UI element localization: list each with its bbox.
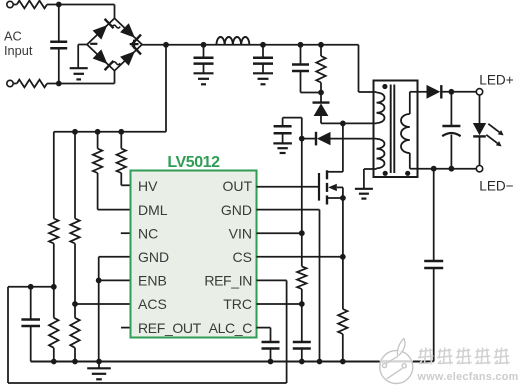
node bottom input junction <box>56 81 62 87</box>
capacitor C1 (X-cap across AC) <box>50 5 67 84</box>
svg-text:DML: DML <box>138 202 168 218</box>
node divider junction C <box>118 129 124 135</box>
pin REF_OUT stub <box>121 327 131 329</box>
svg-text:REF_IN: REF_IN <box>204 273 252 289</box>
resistor R5 (HV series) <box>117 132 131 186</box>
node ground rail junction <box>268 359 274 365</box>
label - (bridge negative) <box>90 43 97 45</box>
watermark logo and text <box>380 339 519 384</box>
ground (aux winding) <box>355 189 373 199</box>
transformer T1 secondary winding <box>401 92 418 169</box>
pin label REF_IN (right) <box>204 273 252 289</box>
resistor R11 (VIN-TRC) <box>297 139 306 342</box>
ground (C5) <box>273 143 292 153</box>
node feedback tap A <box>51 284 57 290</box>
wire <box>418 168 477 170</box>
svg-text:HV: HV <box>138 178 158 194</box>
label + (bridge positive) <box>130 40 139 49</box>
node output cap top <box>449 89 455 95</box>
svg-text:REF_OUT: REF_OUT <box>138 320 202 336</box>
node source junction <box>340 195 346 201</box>
resistor R4 (current sense) <box>338 309 347 362</box>
capacitor C6 (output, polarized) <box>442 92 460 169</box>
label LED+ <box>479 72 513 87</box>
wire <box>13 5 114 20</box>
label LV5012 <box>167 154 220 171</box>
wire <box>257 256 343 258</box>
capacitor C7 (secondary bulk) <box>424 169 443 362</box>
svg-text:ACS: ACS <box>138 296 167 312</box>
svg-text:www.elecfans.com: www.elecfans.com <box>417 371 519 383</box>
node rail junction D <box>298 42 304 48</box>
diode D5 (clamp) <box>313 93 330 124</box>
AC input label <box>4 29 33 58</box>
resistor R10 (divider lower B) <box>70 304 79 362</box>
terminal J2 (AC neutral) <box>7 80 13 86</box>
node rail junction E <box>318 42 324 48</box>
svg-text:GND: GND <box>221 202 252 218</box>
svg-text:TRC: TRC <box>223 296 252 312</box>
capacitor C2 (filter) <box>194 45 214 74</box>
wire <box>99 257 131 362</box>
wire <box>418 91 427 93</box>
node phase dot primary <box>382 84 387 89</box>
diode D7 (output rectifier) <box>427 85 477 99</box>
resistor R7 (divider upper A) <box>49 219 59 287</box>
node rail junction B <box>201 42 207 48</box>
node ground rail junction <box>317 359 323 365</box>
label LED- <box>479 178 513 193</box>
svg-text:VIN: VIN <box>229 225 252 241</box>
resistor R9 (divider upper B) <box>70 132 79 304</box>
node TRC tap <box>299 301 305 307</box>
transformer T1 primary winding <box>377 92 385 123</box>
svg-text:ALC_C: ALC_C <box>209 320 253 336</box>
node rail junction A <box>163 42 169 48</box>
wire <box>142 44 359 46</box>
transformer T1 aux winding <box>377 139 385 168</box>
diode D4 (bridge bottom-right) <box>120 45 141 66</box>
wire <box>31 361 434 363</box>
transformer T1 core box <box>374 81 418 178</box>
node ground rail junction <box>340 359 346 365</box>
label ~ (bridge AC top) <box>112 25 120 28</box>
wire <box>8 280 287 383</box>
pin label NC <box>138 225 158 241</box>
pin label REF_OUT <box>138 320 202 336</box>
wire <box>321 122 377 124</box>
svg-text:ENB: ENB <box>138 273 167 289</box>
node divider junction A <box>72 129 78 135</box>
node rail junction C <box>260 42 266 48</box>
capacitor C4 (snubber) <box>292 45 321 93</box>
pin NC stub <box>121 232 131 234</box>
capacitor C10 (TRC filter) <box>293 342 311 362</box>
wire <box>75 303 131 305</box>
node secondary return B <box>449 166 455 172</box>
node ground rail junction <box>72 359 78 365</box>
node ground rail junction <box>51 359 57 365</box>
capacitor C3 (filter) <box>253 45 273 74</box>
node cap tap <box>28 284 34 290</box>
node phase dot secondary <box>405 171 410 176</box>
op-amp U1 LV5012 body <box>131 171 257 338</box>
wire <box>359 45 377 92</box>
pin label CS (right) <box>233 249 252 265</box>
svg-text:NC: NC <box>138 225 158 241</box>
svg-text:GND: GND <box>138 249 169 265</box>
capacitor C9 (ALC_C) <box>257 328 280 362</box>
ground (bridge negative) <box>70 68 88 79</box>
pin label ACS <box>138 296 167 312</box>
diode D1 (bridge top-left) <box>93 19 114 40</box>
pin label ALC_C (right) <box>209 320 253 336</box>
svg-text:Input: Input <box>4 43 33 58</box>
bridge rectifier BR1 outline <box>87 18 142 70</box>
wire <box>257 303 302 305</box>
pin label DML <box>138 202 168 218</box>
node ACS tap <box>72 301 78 307</box>
svg-text:LED+: LED+ <box>479 72 513 87</box>
ground (C3) <box>253 73 273 84</box>
wire <box>257 210 320 362</box>
node ground rail junction <box>96 359 102 365</box>
pin label GND (right) <box>221 202 252 218</box>
inductor L1 (EMI filter) <box>216 37 249 45</box>
svg-text:LED−: LED− <box>479 178 513 193</box>
transistor Q1 (MOSFET) <box>319 170 343 204</box>
diode D6 (aux rectifier) <box>302 132 377 146</box>
pin label GND <box>138 249 169 265</box>
resistor R8 (divider lower A) <box>49 287 59 362</box>
label ~ (bridge AC bottom) <box>112 62 120 65</box>
capacitor C8 (soft start) <box>21 287 40 362</box>
svg-text:OUT: OUT <box>222 178 252 194</box>
node drain tap <box>340 121 346 127</box>
node CS tap <box>340 254 346 260</box>
diode D2 (bridge top-right) <box>120 23 141 44</box>
ground (main) <box>87 362 111 380</box>
terminal J1 (AC line) <box>7 1 13 7</box>
pin label TRC (right) <box>223 296 252 312</box>
node VIN tap <box>299 230 305 236</box>
pin label ENB <box>138 273 167 289</box>
node secondary return A <box>431 166 437 172</box>
wire <box>364 168 377 189</box>
resistor R1 (top AC line) <box>17 1 47 9</box>
node VIN rectifier junction <box>299 136 305 142</box>
wire <box>54 45 166 219</box>
resistor R2 (bottom AC line) <box>17 80 47 88</box>
resistor R3 (snubber) <box>316 45 325 93</box>
pin label VIN (right) <box>229 225 252 241</box>
LED LED1 <box>473 95 504 166</box>
node top input junction <box>56 2 62 8</box>
wire <box>78 45 87 69</box>
node snubber junction <box>318 90 324 96</box>
pin label OUT (right) <box>222 178 252 194</box>
terminal LED+ output <box>476 89 482 95</box>
node phase dot aux <box>383 171 388 176</box>
wire <box>257 232 302 234</box>
terminal LED- output <box>476 166 482 172</box>
ground (C2) <box>194 73 214 84</box>
node ground rail junction <box>299 359 305 365</box>
svg-text:AC: AC <box>4 29 22 44</box>
wire <box>99 279 131 281</box>
node ENB-GND junction <box>96 278 102 284</box>
wire <box>342 123 344 171</box>
pin label HV <box>138 178 158 194</box>
svg-text:LV5012: LV5012 <box>167 154 220 171</box>
capacitor C5 (VIN filter) <box>274 118 302 144</box>
wire <box>257 186 320 188</box>
wire <box>8 287 54 383</box>
svg-text:CS: CS <box>233 249 252 265</box>
wire <box>13 70 114 84</box>
diode D3 (bridge bottom-left) <box>93 49 114 70</box>
resistor R6 (DML series) <box>93 132 131 210</box>
node divider junction B <box>95 129 101 135</box>
wire <box>342 198 344 309</box>
